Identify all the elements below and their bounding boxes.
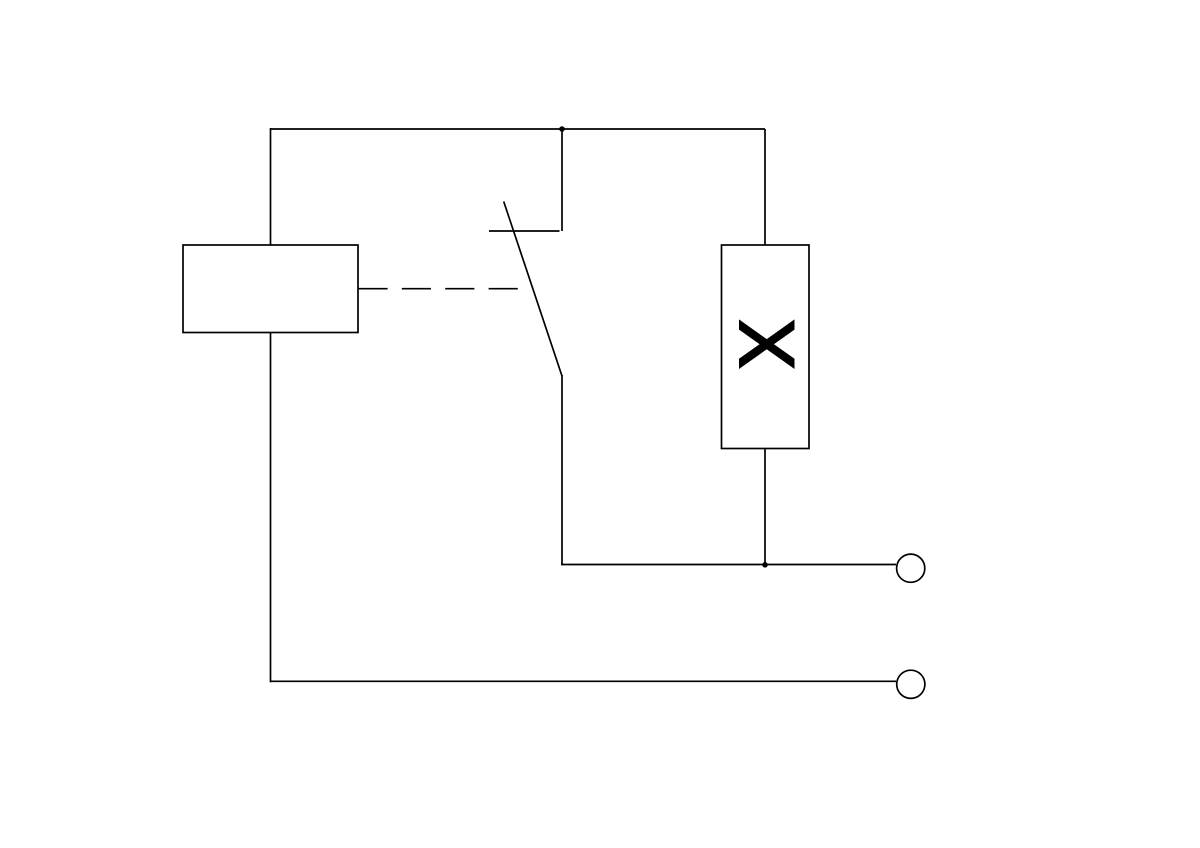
wire: top horizontal bus xyxy=(271,128,766,130)
wire: lower horizontal to terminal xyxy=(561,564,896,566)
terminal X2 (lower) xyxy=(897,670,925,698)
junction at lamp branch and lower wire xyxy=(762,562,768,568)
wire: left vertical from coil to bottom bus xyxy=(270,333,272,683)
terminal X1 (upper) xyxy=(897,554,925,582)
NC contact fixed seat bar xyxy=(489,230,560,232)
wire: lamp branch vertical to lower node xyxy=(764,449,766,565)
wire: contact branch vertical to lower node xyxy=(561,375,563,565)
wire: lamp branch vertical from top bus xyxy=(764,129,766,245)
lamp E1 cross symbol xyxy=(739,319,795,369)
lamp E1 body xyxy=(722,245,810,449)
wire: left vertical from top bus to coil xyxy=(270,128,272,245)
mechanical link (dashed) between coil and contact xyxy=(358,288,518,290)
wire: bottom horizontal bus to terminal xyxy=(271,680,897,682)
relay coil K1 xyxy=(183,245,358,333)
wire: contact branch vertical from top bus xyxy=(561,129,563,231)
NC contact moving arm xyxy=(504,202,562,377)
junction at top bus and contact branch xyxy=(559,126,565,132)
